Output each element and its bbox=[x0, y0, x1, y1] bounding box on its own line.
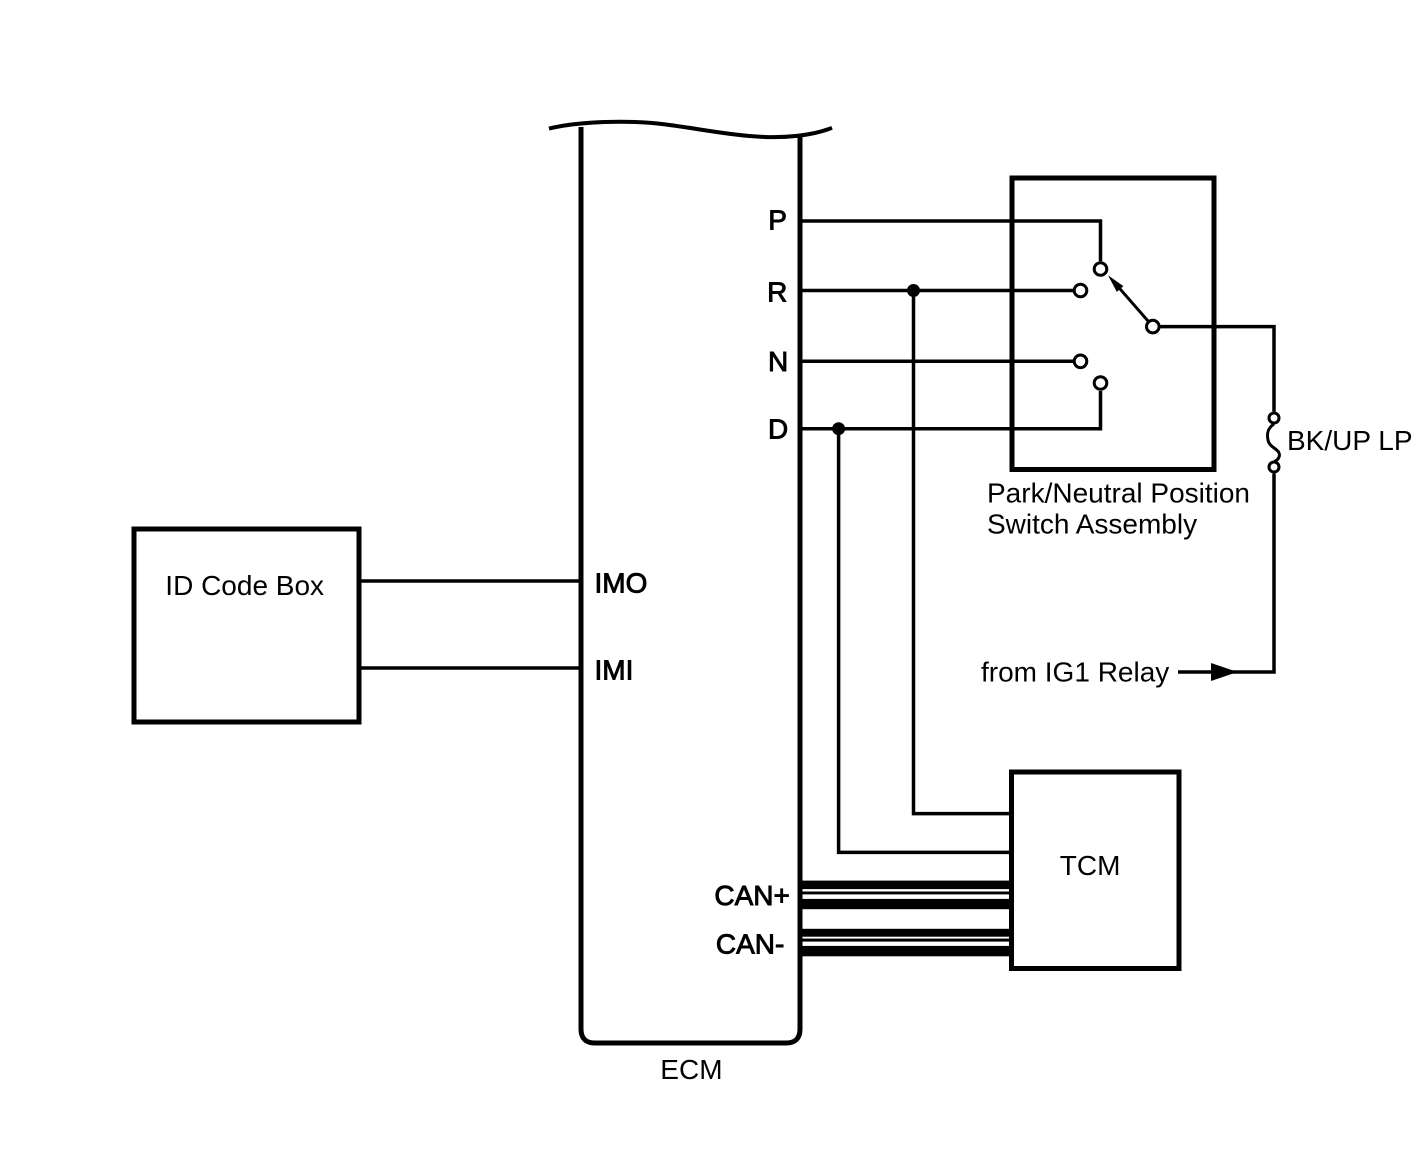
svg-text:IMO: IMO bbox=[595, 568, 648, 599]
svg-text:Switch Assembly: Switch Assembly bbox=[987, 509, 1197, 540]
svg-text:D: D bbox=[768, 414, 788, 445]
svg-text:Park/Neutral Position: Park/Neutral Position bbox=[987, 478, 1250, 509]
svg-text:BK/UP LP: BK/UP LP bbox=[1287, 425, 1413, 456]
svg-text:ECM: ECM bbox=[660, 1054, 722, 1085]
svg-text:IMI: IMI bbox=[595, 654, 634, 685]
svg-text:R: R bbox=[767, 277, 787, 308]
svg-text:TCM: TCM bbox=[1060, 850, 1121, 881]
svg-text:N: N bbox=[768, 346, 788, 377]
svg-text:from IG1 Relay: from IG1 Relay bbox=[981, 656, 1169, 687]
svg-text:ID Code Box: ID Code Box bbox=[165, 570, 324, 601]
svg-text:CAN-: CAN- bbox=[716, 928, 784, 959]
svg-text:P: P bbox=[768, 204, 787, 235]
svg-text:CAN+: CAN+ bbox=[714, 880, 789, 911]
